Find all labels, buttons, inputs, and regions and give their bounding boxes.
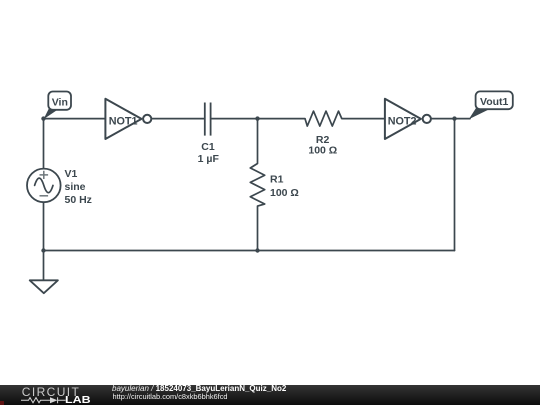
wire Vin node to NOT1 input (44, 118, 106, 120)
node Vin junction (41, 116, 45, 120)
wire Vin node down to V1 top (43, 119, 45, 169)
svg-text:Vin: Vin (52, 96, 68, 108)
svg-text:100 Ω: 100 Ω (270, 187, 299, 199)
wire NOT2 output to node Vout (431, 118, 455, 120)
voltage source V1 (27, 169, 61, 203)
node ground junction (41, 248, 45, 252)
flag Vin (44, 92, 72, 120)
svg-text:100 Ω: 100 Ω (308, 144, 337, 156)
wire C1 to node B (212, 118, 258, 120)
footer bar (0, 385, 540, 405)
wire node Vout to flag tail (455, 118, 471, 120)
wire right vertical drop (454, 119, 456, 251)
flag Vout1 (469, 91, 513, 119)
wire bottom rail (44, 250, 455, 252)
svg-text:50 Hz: 50 Hz (65, 194, 92, 206)
wire V1 bottom to bottom rail (43, 202, 45, 250)
node R1 bottom junction (255, 248, 259, 252)
resistor R1 (250, 119, 264, 251)
footer credit line 1 (112, 385, 286, 393)
svg-text:Vout1: Vout1 (480, 96, 509, 108)
resistor R2 (305, 111, 342, 126)
inverter NOT1 (105, 99, 151, 139)
red corner mark (0, 401, 4, 405)
inverter NOT2 (385, 99, 431, 139)
svg-text:sine: sine (65, 181, 86, 193)
wire node B to R2 (258, 118, 306, 120)
svg-text:NOT2: NOT2 (388, 116, 417, 128)
ground (30, 280, 58, 293)
svg-text:1 µF: 1 µF (198, 153, 220, 165)
node Vout junction (452, 116, 456, 120)
svg-text:NOT1: NOT1 (109, 116, 138, 128)
logo schematic glyph (21, 396, 66, 405)
node B junction (255, 116, 259, 120)
wire NOT1 output to C1 (151, 118, 204, 120)
svg-text:R1: R1 (270, 174, 284, 186)
capacitor C1 (205, 103, 211, 136)
wire ground stem (43, 251, 45, 281)
svg-text:C1: C1 (201, 141, 215, 153)
footer credit line 2 (113, 393, 228, 401)
wire R2 to NOT2 input (342, 118, 385, 120)
svg-text:V1: V1 (65, 168, 78, 180)
logo LAB (65, 395, 91, 405)
logo CIRCUIT (22, 385, 80, 399)
